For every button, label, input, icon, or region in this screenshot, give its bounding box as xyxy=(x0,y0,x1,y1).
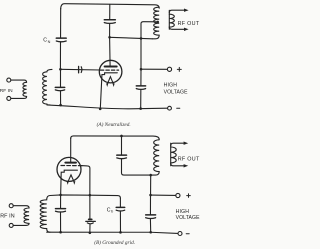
label Cb xyxy=(107,207,114,213)
capacitor grid coupling A xyxy=(79,66,82,73)
tube V1 envelope xyxy=(99,60,122,83)
tube V2 filament arrow right xyxy=(73,181,75,185)
capacitor bias B xyxy=(86,219,96,223)
terminal plus B xyxy=(176,193,180,197)
label plus B xyxy=(187,194,191,198)
terminal minus A xyxy=(168,106,172,110)
wire plus rail B xyxy=(151,194,176,196)
node coil bottom B xyxy=(149,174,152,177)
node Cb-ground B xyxy=(119,231,122,234)
inductor plate tank A xyxy=(152,7,159,39)
wire RF OUT bottom lead A xyxy=(169,27,184,29)
capacitor bypass A xyxy=(136,86,145,89)
wire bypass branch upper B xyxy=(149,195,151,215)
node cathode-ground A xyxy=(99,108,102,111)
wire grid rail A xyxy=(60,68,100,71)
node grid-rail B xyxy=(89,194,92,197)
wire coil bottom to junction A xyxy=(141,37,152,39)
capacitor input tank B xyxy=(56,209,66,212)
tube V2 filament arrow left xyxy=(67,181,69,185)
label minus A xyxy=(177,107,180,109)
terminal RF IN bottom A xyxy=(7,96,11,100)
tube V2 filament xyxy=(68,175,75,182)
wire RF OUT top lead B xyxy=(171,143,184,146)
wire CN branch upper xyxy=(60,9,62,39)
svg-text:C: C xyxy=(107,207,111,213)
svg-text:b: b xyxy=(111,210,113,214)
svg-text:RF IN: RF IN xyxy=(0,88,13,94)
wire Cb branch upper B xyxy=(119,198,121,207)
node tap on coil A xyxy=(157,21,159,23)
tube V1 plate lead xyxy=(109,37,112,66)
node cathode-rail junction B xyxy=(59,194,62,197)
node bias-ground B xyxy=(89,232,92,235)
wire top rail B xyxy=(71,136,160,140)
wire bias branch upper B xyxy=(89,195,91,219)
wire HV vertical A xyxy=(140,38,142,69)
wire cathode rail B xyxy=(50,195,120,198)
inductor plate tank B xyxy=(153,140,160,175)
svg-text:(B) Grounded grid.: (B) Grounded grid. xyxy=(94,239,135,246)
wire blocking cap to coil bottom B xyxy=(122,159,153,175)
tube V1 cathode xyxy=(100,73,117,109)
wire bypass branch upper A xyxy=(140,69,142,86)
inductor RF OUT secondary B xyxy=(171,143,177,166)
label HIGH VOLTAGE A xyxy=(164,82,189,95)
arrow RF OUT top B xyxy=(184,142,189,145)
wire RF OUT top lead A xyxy=(169,10,184,12)
node HV plus rail A xyxy=(140,68,143,71)
capacitor blocking B xyxy=(117,155,127,159)
terminal plus A xyxy=(167,67,171,71)
wire bypass branch lower A xyxy=(140,89,142,108)
wire RF IN bottom lead A xyxy=(11,97,27,99)
wire bottom rail A xyxy=(47,105,167,109)
wire plate to HV riser A xyxy=(110,37,141,38)
capacitor Cb xyxy=(116,207,125,211)
label minus B xyxy=(186,233,189,235)
node blocking branch B xyxy=(120,135,123,138)
wire HV drop B xyxy=(150,175,152,195)
tube V2 cathode xyxy=(61,170,78,195)
label CN xyxy=(43,38,50,44)
capacitor plate blocking A xyxy=(104,20,115,24)
wire RF IN top lead A xyxy=(11,80,27,82)
wire blocking branch upper B xyxy=(121,136,123,155)
tube V1 grid dashes xyxy=(100,69,118,71)
node plus rail B xyxy=(149,194,152,197)
node tank cap bottom A xyxy=(59,104,62,107)
node bypass-ground B xyxy=(149,231,152,234)
tube V1 filament arrow left xyxy=(106,83,108,87)
wire bias branch lower B xyxy=(89,224,91,232)
svg-text:RF OUT: RF OUT xyxy=(178,156,200,162)
node bypass-ground A xyxy=(139,107,142,110)
capacitor bypass B xyxy=(146,215,156,219)
tube V1 plate bar xyxy=(105,66,117,68)
inductor RF OUT secondary A xyxy=(169,10,174,29)
svg-text:(A) Neutralized.: (A) Neutralized. xyxy=(97,121,131,128)
svg-text:N: N xyxy=(48,40,51,44)
wire blocking cap to plate node A xyxy=(109,24,111,38)
svg-text:RF OUT: RF OUT xyxy=(178,21,200,27)
arrow RF OUT bottom B xyxy=(184,164,189,167)
inductor input primary A xyxy=(23,82,27,96)
svg-text:VOLTAGE: VOLTAGE xyxy=(176,215,201,221)
svg-text:VOLTAGE: VOLTAGE xyxy=(164,89,189,95)
terminal RF IN top B xyxy=(9,204,13,208)
wire RF IN bottom lead B xyxy=(13,223,29,225)
wire tank cap branch upper B xyxy=(60,195,62,209)
inductor input primary B xyxy=(24,208,29,223)
terminal minus B xyxy=(178,232,182,236)
tube V2 plate lead xyxy=(70,138,72,162)
wire top rail A xyxy=(61,4,160,9)
label HIGH VOLTAGE B xyxy=(176,209,201,221)
inductor input secondary B xyxy=(40,196,50,233)
arrow RF OUT top A xyxy=(184,9,189,12)
wire bottom rail B xyxy=(47,232,178,233)
terminal RF IN bottom B xyxy=(9,223,13,227)
tube V2 envelope xyxy=(57,157,81,181)
wire bypass branch lower B xyxy=(149,219,151,233)
node plate junction A xyxy=(108,36,111,39)
wire tank cap branch lower B xyxy=(60,212,62,232)
tube V2 plate bar xyxy=(65,162,76,164)
svg-text:RF IN: RF IN xyxy=(0,213,15,219)
wire tank cap branch lower A xyxy=(60,91,62,105)
wire tap riser A xyxy=(141,22,158,39)
wire plate branch upper A xyxy=(109,4,111,19)
wire tank cap branch upper A xyxy=(60,69,62,87)
terminal RF IN top A xyxy=(7,78,11,82)
capacitor tank A xyxy=(55,87,64,90)
wire RF OUT bottom lead B xyxy=(171,163,184,166)
arrow RF OUT bottom A xyxy=(184,28,189,31)
svg-text:C: C xyxy=(43,38,47,44)
tube V1 filament xyxy=(107,77,113,85)
tube V1 filament arrow right xyxy=(113,83,115,87)
tube V2 grid dashes xyxy=(61,165,83,167)
capacitor CN xyxy=(56,38,66,42)
svg-text:HIGH: HIGH xyxy=(164,82,178,88)
label plus A xyxy=(177,67,181,71)
node tank cap-ground B xyxy=(59,231,62,234)
node CN-grid junction xyxy=(59,68,62,71)
wire CN to grid rail xyxy=(59,42,61,69)
node HV riser junction A xyxy=(140,37,143,40)
wire RF IN top lead B xyxy=(13,206,29,208)
wire plus rail A xyxy=(141,68,167,70)
wire grid lead B xyxy=(81,166,90,196)
wire Cb branch lower B xyxy=(119,211,121,232)
inductor tank secondary A xyxy=(43,69,52,105)
